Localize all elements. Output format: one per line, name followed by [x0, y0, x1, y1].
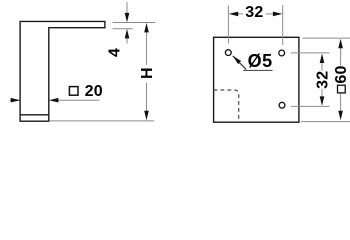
svg-text:Ø5: Ø5: [248, 51, 273, 71]
svg-text:32: 32: [245, 4, 263, 21]
svg-text:20: 20: [85, 83, 103, 100]
svg-text:60: 60: [333, 65, 350, 83]
svg-text:H: H: [139, 67, 156, 79]
svg-text:4: 4: [106, 48, 123, 57]
svg-text:32: 32: [315, 71, 332, 89]
